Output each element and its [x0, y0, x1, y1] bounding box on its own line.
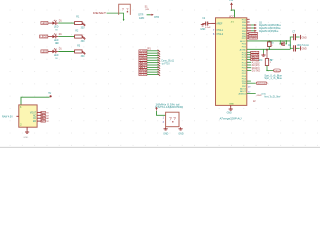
resistor R4 [265, 59, 268, 66]
svg-text:NC: NC [33, 115, 37, 117]
wire [147, 59, 159, 61]
pin VOUT [37, 111, 42, 113]
svg-text:D12: D12 [140, 74, 146, 76]
svg-text:(D6): (D6) [261, 94, 266, 96]
svg-text:+5V: +5V [229, 0, 234, 2]
pin end [158, 64, 161, 66]
pin end [158, 57, 161, 59]
net label VCC [139, 59, 147, 61]
net label LED2 [40, 35, 48, 38]
pin end [158, 62, 161, 64]
wire [266, 66, 268, 71]
svg-text:XTAL1: XTAL1 [216, 29, 223, 32]
junction [269, 40, 271, 42]
ground below U1 [230, 107, 232, 109]
wire [147, 69, 159, 71]
pin PD1 [247, 69, 251, 71]
wire [147, 57, 159, 59]
net label A3 [251, 56, 259, 58]
supply +5V symbol [230, 2, 233, 5]
ground after R-LED2 [82, 36, 83, 38]
pin PB3 [247, 27, 251, 29]
svg-text:Sprt_0_r6_Blue: Sprt_0_r6_Blue [264, 74, 282, 77]
svg-text:GND: GND [200, 29, 205, 31]
ground right of Y1 [180, 127, 182, 129]
LED LED1 symbol [48, 22, 53, 24]
net label TX0 [139, 50, 147, 52]
svg-text:A7: A7 [42, 114, 45, 117]
pin GND of U2 [26, 127, 28, 130]
svg-text:AREF: AREF [216, 22, 223, 25]
pin end [158, 52, 161, 54]
pin PB1 [247, 32, 249, 34]
svg-text:AGND: AGND [240, 48, 247, 51]
ground right of C7 [300, 35, 302, 39]
pin PB6 [247, 82, 256, 84]
net label D7/AIN1 [249, 37, 258, 39]
svg-text:5V: 5V [48, 93, 51, 95]
svg-text:GND: GND [302, 49, 307, 51]
svg-text:A6: A6 [42, 117, 45, 120]
pin end [158, 73, 161, 75]
net label A4/SDA [251, 54, 259, 56]
off-page arrow up [266, 48, 268, 50]
junction [280, 40, 282, 42]
pin AVCC [247, 40, 290, 42]
supply VCC near Y1 [155, 107, 157, 109]
pin PB5 [247, 21, 250, 23]
net label D12 [139, 74, 147, 76]
wire [147, 66, 159, 68]
svg-text:ADC7: ADC7 [240, 90, 247, 93]
svg-text:16MHz 0.5% tol: 16MHz 0.5% tol [155, 104, 180, 107]
svg-text:XTAL2: XTAL2 [216, 33, 223, 36]
jumper A7 [41, 114, 46, 116]
svg-text:D1-TXO: D1-TXO [252, 71, 261, 73]
LED LED2 symbol [48, 36, 53, 38]
ground left of C2 [202, 24, 204, 25]
svg-text:I2C: I2C [259, 60, 263, 62]
svg-text:RESET: RESET [93, 11, 106, 15]
svg-text:OSC2: OSC2 [274, 70, 280, 72]
pin PC1 [247, 61, 251, 63]
wire [58, 36, 74, 38]
wire [289, 41, 291, 49]
wire [147, 64, 159, 66]
svg-text:DigitalPin10(SS)Blue: DigitalPin10(SS)Blue [259, 30, 279, 33]
net label OSC1/CLKO [256, 82, 267, 85]
pin PB4 [247, 24, 251, 26]
net label D9/PWM [249, 32, 258, 34]
pin PC3 [247, 56, 251, 58]
pin end [158, 50, 161, 52]
svg-text:EN: EN [33, 121, 37, 123]
crystal Y1 body [166, 112, 179, 127]
wire [251, 30, 254, 32]
net label LED1 [41, 22, 48, 25]
wire [251, 27, 254, 29]
wire [147, 55, 159, 57]
off-page arrow [254, 27, 256, 29]
svg-text:DigitalPin11(MOSI)Blue: DigitalPin11(MOSI)Blue [259, 27, 281, 30]
svg-text:A2: A2 [252, 58, 259, 61]
pin EN [37, 120, 42, 122]
ground below rail [263, 53, 265, 55]
wire [147, 71, 159, 73]
svg-text:LED1: LED1 [42, 21, 48, 25]
net label D8/CLK0 [249, 35, 258, 37]
wire [147, 14, 151, 16]
diode D4 [279, 41, 281, 44]
pin PC6 [247, 18, 250, 20]
off-page arrow [254, 30, 256, 32]
pin PD7 [247, 37, 249, 39]
junction [285, 41, 287, 44]
pin end [158, 66, 161, 68]
junction [123, 19, 125, 21]
wire [147, 62, 159, 64]
jumper VC [41, 120, 46, 122]
svg-text:ATmega328P-AU: ATmega328P-AU [219, 117, 243, 121]
resistor R5 [268, 41, 270, 42]
svg-text:OSC1/CLKO: OSC1/CLKO [257, 83, 266, 85]
svg-text:DTR: DTR [154, 16, 159, 19]
svg-text:to FTDI: to FTDI [162, 62, 170, 65]
resistor R-LED1 [75, 22, 83, 25]
net label D13 [139, 71, 147, 73]
net label A0 [139, 69, 147, 71]
wire [231, 10, 234, 18]
net label OSC2 [274, 69, 281, 72]
pin RAW of U2 [16, 115, 18, 117]
pin GND of U1 [230, 105, 232, 107]
wire [21, 97, 50, 105]
pin PC4 [247, 54, 251, 56]
wire [147, 50, 159, 52]
jumper A6 [41, 117, 46, 119]
wire [107, 13, 124, 21]
svg-text:CSTN-16M0V530: CSTN-16M0V530 [155, 107, 184, 109]
off-page arrow [150, 14, 151, 16]
svg-text:LED: LED [54, 40, 59, 42]
net label RXI [139, 52, 147, 54]
net label A2 [139, 64, 147, 66]
svg-text:Anm_To_D1_Mve: Anm_To_D1_Mve [264, 96, 281, 99]
svg-text:GND: GND [227, 112, 232, 114]
svg-text:GND: GND [178, 134, 183, 136]
net label A3 [139, 62, 147, 64]
wire [147, 74, 159, 76]
jumper 5V [41, 111, 46, 113]
pin end [158, 71, 161, 73]
net label LED3 [41, 50, 48, 53]
resistor R-LED3 [75, 50, 83, 53]
net label A1 [139, 66, 147, 68]
capacitor C2 [203, 23, 206, 25]
capacitor C8 [290, 47, 293, 49]
junction [231, 9, 233, 11]
wire [251, 24, 254, 26]
ground after R-LED3 [82, 51, 83, 53]
wire [147, 52, 159, 54]
pin end [158, 69, 161, 71]
pin PC0 [247, 64, 251, 66]
pin NC [37, 114, 42, 116]
sheet frame bottom edge [0, 146, 320, 148]
svg-text:100n 5.1mA: 100n 5.1mA [297, 44, 310, 47]
svg-text:GND: GND [229, 104, 234, 106]
regulator U2 body [19, 105, 37, 127]
pin PB2 [247, 30, 251, 32]
svg-text:VOUT: VOUT [30, 112, 37, 114]
pin CC [37, 117, 42, 119]
svg-text:DigitalPin12(MISO)Blue: DigitalPin12(MISO)Blue [259, 24, 282, 27]
svg-text:GND: GND [302, 37, 307, 39]
svg-text:LED2: LED2 [40, 34, 47, 38]
pin PD5 [247, 80, 251, 82]
svg-text:Conn_01x11: Conn_01x11 [161, 61, 175, 63]
wire [290, 37, 293, 41]
svg-text:D0-RXI: D0-RXI [252, 68, 260, 70]
supply +5V symbol [50, 95, 52, 97]
net label A5/SCL [251, 51, 259, 53]
pin end [158, 54, 161, 56]
pin PD0 [247, 67, 251, 69]
ground left of Y1 [165, 127, 167, 129]
pin PB0 [247, 35, 249, 37]
wire [58, 51, 74, 53]
ground below U2 [26, 130, 28, 132]
wire [157, 111, 166, 115]
LED LED3 symbol [48, 51, 53, 53]
capacitor C7 [293, 34, 295, 40]
net label RST [139, 55, 147, 57]
wire [267, 69, 273, 71]
pin AGND2 [247, 93, 256, 95]
svg-text:LED: LED [54, 27, 59, 29]
junction [269, 49, 271, 51]
svg-text:AVCC: AVCC [240, 40, 246, 43]
net label A2 [251, 59, 259, 61]
svg-text:CC: CC [33, 118, 37, 120]
svg-text:RAW 4.5V: RAW 4.5V [2, 115, 13, 118]
svg-text:GRN: GRN [139, 17, 145, 20]
svg-text:AGND2: AGND2 [238, 93, 246, 96]
resistor R-LED2 [75, 35, 83, 38]
svg-text:VC: VC [46, 121, 49, 123]
pin end [158, 59, 161, 61]
pin AGND [247, 48, 290, 50]
svg-text:GND: GND [163, 133, 168, 135]
svg-text:GND: GND [257, 95, 262, 97]
ground after R-LED1 [82, 22, 83, 24]
svg-text:A0 (23): A0 (23) [252, 64, 260, 67]
svg-text:D7/AIN1: D7/AIN1 [250, 37, 257, 40]
svg-text:0.1uF: 0.1uF [205, 27, 211, 29]
svg-text:LED3: LED3 [42, 49, 48, 53]
pin PC5 [247, 51, 251, 53]
wire [58, 22, 74, 24]
svg-text:Sprt_1_r6_Blue: Sprt_1_r6_Blue [264, 77, 282, 80]
switch S1 body [119, 4, 131, 15]
svg-text:LED: LED [54, 55, 59, 57]
IC U1 body ATmega328 [216, 18, 247, 106]
ground right of C8 [300, 46, 302, 50]
net label GND [139, 57, 147, 59]
svg-text:GND: GND [23, 137, 28, 139]
pin AREF of U1 [212, 22, 216, 24]
pin PC2 [247, 59, 251, 61]
off-page arrow [254, 24, 256, 26]
wire [263, 49, 265, 53]
wire red [266, 50, 268, 58]
